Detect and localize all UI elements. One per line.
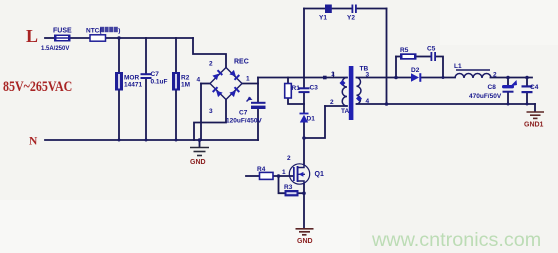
svg-text:Y2: Y2 (347, 15, 355, 22)
node Y loop to bottom rail junction (385, 102, 389, 106)
wire Y loop top left (304, 8, 325, 10)
capacitor C4 (522, 84, 539, 93)
wire L input lead (45, 37, 54, 39)
svg-text:FUSE: FUSE (53, 28, 72, 35)
diode D2 (411, 67, 421, 82)
svg-text:120uF/450V: 120uF/450V (226, 118, 262, 125)
svg-text:MOR: MOR (124, 75, 139, 82)
wire R4 left lead (246, 175, 260, 177)
node N rail / ground junction (198, 138, 202, 142)
capacitor Y1 (319, 5, 332, 22)
wire bulk cap riser (257, 78, 259, 103)
varistor MOR (115, 72, 142, 91)
wire bridge negative path (194, 100, 226, 141)
wire R3 to source (299, 192, 305, 194)
wire Y loop right riser (386, 9, 388, 105)
resistor R1 (285, 84, 300, 99)
svg-text:GND1: GND1 (524, 122, 544, 129)
wire MOR top branch (118, 38, 120, 72)
svg-text:2: 2 (493, 72, 497, 79)
wire D1 to drain node (303, 123, 305, 139)
wire MOR bottom branch (118, 91, 120, 141)
transformer secondary polarity dot (356, 96, 362, 102)
node drain D1 junction (302, 136, 306, 140)
wire snubber top middle (417, 56, 431, 58)
node N rail / MOR junction (118, 139, 121, 142)
wire snubber left riser (395, 57, 397, 78)
wire C7 film cap bottom branch (145, 79, 147, 140)
node C8 top junction (506, 76, 510, 80)
wire gate to R3 (279, 176, 285, 193)
transformer TA/TB core (349, 66, 354, 120)
svg-text:1M: 1M (181, 82, 190, 89)
wire bridge pin1 stub (242, 83, 258, 85)
wire R1 bottom lead (288, 98, 304, 104)
wire bridge pin4 stub (201, 83, 210, 85)
svg-text:GND: GND (190, 159, 206, 166)
svg-text:L: L (26, 26, 38, 46)
wire bridge pin4 vertical (200, 84, 202, 141)
wire R2 top branch (175, 38, 177, 72)
thermistor NTC (86, 27, 120, 41)
resistor R3 (284, 184, 299, 196)
svg-text:L1: L1 (454, 63, 462, 70)
svg-text:1: 1 (331, 71, 335, 78)
svg-text:1: 1 (282, 169, 286, 176)
svg-text:C3: C3 (310, 85, 319, 92)
node snubber right junction (442, 76, 445, 79)
wire source vertical (303, 185, 305, 229)
wire snubber top right (436, 57, 443, 78)
node snubber left junction (394, 76, 398, 80)
svg-text:85V~265VAC: 85V~265VAC (3, 78, 72, 95)
wire pin2 stub (325, 105, 347, 107)
node N rail / R2 junction (175, 139, 178, 142)
svg-text:2: 2 (209, 61, 213, 68)
svg-text:1.5A/250V: 1.5A/250V (41, 46, 69, 52)
transistor Q1 MOSFET (289, 164, 324, 185)
wire ground stub near bridge (199, 140, 201, 147)
wire Y loop top middle (332, 8, 352, 10)
resistor R2 (172, 72, 190, 91)
bridge diode lower-right (229, 86, 240, 97)
diode D1 (300, 113, 316, 123)
wire L rail step down (193, 38, 226, 68)
svg-text:C7: C7 (239, 110, 248, 117)
wire pin1 tick (333, 73, 335, 78)
node C4 top junction (525, 76, 529, 80)
capacitor C7 film 0.1uF (141, 71, 168, 86)
wire bulk cap lower lead (257, 109, 259, 140)
transformer secondary winding (357, 78, 361, 105)
svg-text:2: 2 (287, 155, 291, 162)
svg-text:TB: TB (360, 66, 369, 73)
wire C3 to D1 (303, 93, 305, 113)
svg-text:C5: C5 (427, 46, 436, 53)
svg-text:Q1: Q1 (315, 171, 324, 178)
ground primary bottom (296, 229, 314, 235)
wire drain node to pin2 (304, 106, 325, 138)
wire L1 to output (491, 77, 533, 79)
svg-text:3: 3 (209, 108, 213, 115)
wire L rail NTC to corner (106, 37, 194, 39)
wire Y loop top right (357, 8, 387, 10)
resistor R5 (400, 47, 417, 60)
svg-text:REC: REC (234, 59, 249, 66)
svg-text:TA: TA (341, 108, 349, 115)
wire C4 bottom lead (526, 93, 528, 104)
svg-text:C7: C7 (151, 71, 160, 78)
capacitor C5 (427, 46, 436, 62)
capacitor C3 (299, 85, 319, 94)
wire secondary bottom rail (357, 103, 536, 105)
svg-text:2: 2 (330, 99, 334, 106)
node pin1 rail junction (323, 76, 327, 80)
node L rail / MOR junction (117, 36, 120, 39)
capacitor Y2 (347, 5, 357, 22)
resistor R4 (257, 166, 273, 179)
svg-text:4: 4 (366, 98, 370, 105)
wire drain vertical (303, 138, 305, 164)
svg-text:www.cntronics.com: www.cntronics.com (371, 229, 541, 251)
capacitor C7 bulk 120uF/450V (226, 97, 266, 125)
svg-text:GND: GND (297, 238, 313, 245)
wire primary + rail (258, 77, 347, 79)
node junction dots (117, 36, 529, 195)
wire GND1 stub (534, 104, 536, 112)
bridge diode upper-right (229, 70, 240, 81)
wire C4 top lead (526, 78, 528, 86)
bridge rectifier REC (210, 59, 249, 100)
wire fuse to NTC (71, 37, 91, 39)
wire C7 film cap top branch (145, 38, 147, 74)
svg-text:C8: C8 (488, 84, 497, 91)
svg-text:R4: R4 (257, 166, 266, 173)
node N rail / C7 junction (145, 139, 148, 142)
svg-text:NTC(: NTC( (86, 28, 102, 35)
wire C3 leads (303, 78, 305, 88)
ground primary near bridge (190, 148, 209, 156)
svg-text:D2: D2 (411, 67, 420, 74)
svg-text:1: 1 (246, 76, 250, 83)
capacitor C8 470uF/50V (469, 80, 517, 100)
svg-text:4: 4 (197, 77, 201, 84)
svg-text:3: 3 (366, 72, 370, 79)
node C4 bottom junction (526, 103, 529, 106)
wire secondary top rail (357, 77, 412, 79)
wire R2 bottom branch (175, 91, 177, 141)
fuse F1 (41, 28, 72, 53)
svg-text:N: N (29, 136, 38, 148)
svg-text:R3: R3 (284, 184, 293, 191)
bridge diode upper-left (212, 69, 223, 80)
wire R1 top lead (287, 78, 289, 84)
wire N rail (45, 139, 258, 141)
svg-text:470uF/50V: 470uF/50V (469, 93, 502, 100)
wire C8 bottom lead (507, 93, 509, 105)
svg-text:R5: R5 (400, 47, 409, 54)
node source R3 junction (302, 191, 306, 195)
wire snubber top left (396, 56, 400, 58)
bridge diode lower-left (212, 86, 223, 97)
svg-text:Y1: Y1 (319, 15, 327, 22)
inductor L1 (454, 63, 491, 78)
svg-text:0.1uF: 0.1uF (151, 79, 168, 86)
wire R4 to gate (273, 175, 293, 177)
node C8 bottom junction (507, 103, 510, 106)
transformer primary polarity dot (340, 80, 346, 86)
node gate junction (277, 174, 281, 178)
svg-text:): ) (118, 28, 120, 35)
ground GND1 secondary (527, 112, 545, 118)
wire D2 to L1 (422, 77, 456, 79)
svg-text:D1: D1 (307, 116, 316, 123)
wire C8 top lead (507, 78, 509, 86)
svg-text:14471: 14471 (124, 82, 142, 89)
svg-text:C4: C4 (530, 84, 539, 91)
transformer primary winding (342, 78, 347, 107)
wire Y loop left riser (303, 9, 305, 78)
svg-text:R2: R2 (181, 75, 190, 82)
